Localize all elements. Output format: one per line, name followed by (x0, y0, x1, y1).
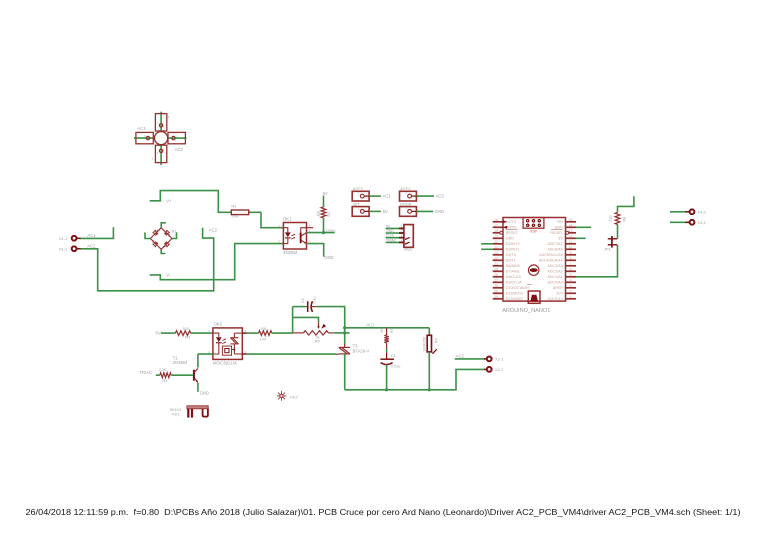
wire R2 to SYNC (323, 218, 325, 233)
SV1 pin 4 wire (386, 241, 404, 243)
OK1 light arrows (291, 234, 295, 236)
svg-text:ZC/S: ZC/S (386, 234, 394, 238)
svg-text:28: 28 (494, 284, 498, 288)
svg-text:SYNC: SYNC (325, 229, 336, 233)
svg-text:TRIAC: TRIAC (386, 238, 397, 242)
svg-text:5V: 5V (558, 237, 563, 241)
capacitor C1 (386, 352, 388, 359)
wire nano D3/INT1 (481, 248, 493, 250)
svg-text:17: 17 (494, 223, 498, 227)
svg-text:5V: 5V (323, 191, 328, 196)
svg-text:12: 12 (569, 234, 573, 238)
svg-text:OK2: OK2 (214, 322, 223, 327)
connector X2-1 (484, 358, 487, 360)
svg-text:3V3: 3V3 (556, 292, 563, 296)
svg-text:20: 20 (494, 240, 498, 244)
wire TRIAC to R4 (156, 374, 160, 376)
svg-text:ACF2: ACF2 (400, 186, 411, 191)
wire OK2 pin6 to R6 (246, 332, 258, 334)
wire to C2 (293, 306, 306, 308)
pin 18 stub (493, 232, 503, 234)
svg-text:5V: 5V (156, 330, 161, 335)
svg-text:23: 23 (494, 256, 498, 260)
pin 16 stub (493, 221, 503, 223)
svg-text:GND: GND (506, 237, 515, 241)
pin 21 stub (493, 248, 503, 250)
T3 gate (336, 353, 339, 356)
wire net AC1 (80, 227, 114, 238)
svg-text:19: 19 (494, 234, 498, 238)
svg-text:ACF1: ACF1 (353, 186, 364, 191)
wire B1 left stub (145, 232, 150, 238)
svg-text:22: 22 (494, 251, 498, 255)
svg-text:25T: 25T (353, 202, 360, 207)
wire JP1 to R8 (617, 224, 619, 238)
wire 5V to R2 (323, 196, 325, 207)
svg-text:15: 15 (569, 218, 573, 222)
svg-text:1: 1 (570, 295, 572, 299)
diode D-topright (164, 230, 171, 237)
svg-text:5.6K: 5.6K (231, 215, 239, 219)
svg-text:6: 6 (570, 267, 572, 271)
wire AC1 to varistor (428, 328, 430, 336)
svg-text:SV1: SV1 (404, 247, 412, 252)
svg-text:MOC3021M: MOC3021M (213, 361, 237, 366)
diode D-botright (163, 242, 170, 249)
svg-text:16: 16 (494, 218, 498, 222)
svg-text:24: 24 (494, 262, 498, 266)
connector X3-2 (670, 211, 686, 213)
svg-text:ADC0/A0: ADC0/A0 (547, 281, 562, 285)
wire R7 to C1 (386, 343, 388, 349)
pin 15 stub (566, 221, 577, 223)
pin 10 stub (566, 248, 577, 250)
wire OK2 pin2 to T1 (208, 353, 213, 355)
svg-text:11: 11 (569, 240, 573, 244)
connector ACF1 (352, 191, 369, 201)
svg-text:D3/INT1: D3/INT1 (506, 248, 520, 252)
svg-text:AC3: AC3 (436, 194, 445, 199)
resistor R4 (160, 373, 171, 378)
varistor R9 S10K250 (427, 335, 431, 352)
svg-text:AC2: AC2 (209, 227, 218, 232)
OK2 zero-cross box (222, 346, 231, 355)
svg-text:3: 3 (401, 234, 403, 238)
svg-text:KK1: KK1 (172, 412, 179, 416)
connector SV1 (404, 225, 413, 248)
wire 5V to R3 (161, 332, 176, 334)
svg-text:13: 13 (569, 229, 573, 233)
svg-text:D10/OC1B/SS: D10/OC1B/SS (506, 286, 530, 290)
pin 14 stub (566, 226, 577, 228)
svg-text:26: 26 (494, 273, 498, 277)
wire R6 to node (272, 332, 293, 334)
wire R3 to OK2 pin1 (191, 332, 213, 334)
svg-text:D6/AIN0: D6/AIN0 (506, 264, 520, 268)
pin 13 stub (566, 232, 577, 234)
pad bottom (155, 145, 166, 162)
svg-text:R9: R9 (434, 339, 438, 343)
pad left (136, 132, 153, 143)
OK1 LED (283, 228, 290, 244)
svg-text:D5/T1: D5/T1 (506, 259, 516, 263)
svg-text:V+: V+ (166, 198, 172, 203)
wire C2 to junction (317, 307, 345, 344)
svg-text:GND: GND (324, 255, 333, 260)
pin 24 stub (493, 265, 503, 267)
wire net AC2 to X2-1 (455, 358, 485, 360)
wire wiper (293, 317, 319, 322)
svg-text:ADC4/SDA/A4: ADC4/SDA/A4 (539, 259, 563, 263)
resistor R1 (249, 211, 261, 213)
svg-text:AC1: AC1 (87, 233, 96, 238)
connector X2-2 (484, 368, 487, 370)
svg-text:AREF: AREF (553, 286, 564, 290)
wire R5 to junction (334, 332, 350, 334)
svg-text:2: 2 (570, 289, 572, 293)
svg-text:R5: R5 (315, 340, 320, 344)
svg-text:X3-2: X3-2 (697, 210, 706, 215)
svg-text:2.2K: 2.2K (159, 368, 167, 372)
connector 2ST (352, 207, 369, 217)
junction dots bottom (385, 388, 388, 391)
svg-text:ADC5/SCL/A5: ADC5/SCL/A5 (539, 253, 563, 257)
svg-text:SK104: SK104 (170, 408, 181, 412)
wire R8 up stub (618, 196, 634, 212)
svg-text:7: 7 (570, 262, 572, 266)
pin 22 stub (493, 254, 503, 256)
pin 11 stub (566, 243, 577, 245)
svg-text:2N3904: 2N3904 (173, 360, 188, 365)
pin 7 stub (566, 265, 577, 267)
svg-text:D7/AIN1: D7/AIN1 (506, 270, 520, 274)
svg-text:27: 27 (494, 278, 498, 282)
pin 12 stub (566, 237, 577, 239)
svg-text:D8/CLK0: D8/CLK0 (506, 275, 521, 279)
svg-text:GND: GND (435, 209, 444, 214)
wire (160, 112, 162, 132)
SV1 clock marks (405, 237, 410, 239)
arduino logo (529, 265, 539, 275)
junction dots (343, 326, 346, 329)
wire nano D2/INT0 (481, 243, 493, 245)
junction (322, 231, 325, 234)
wire OK2 pin4 to gate (247, 353, 337, 355)
resistor R2 (321, 207, 326, 218)
pin 5 stub (566, 276, 577, 278)
svg-text:25: 25 (494, 267, 498, 271)
svg-text:AC2: AC2 (87, 244, 96, 249)
svg-text:X2-1: X2-1 (495, 357, 504, 362)
pin 26 stub (493, 276, 503, 278)
svg-text:D9/OC1A: D9/OC1A (506, 281, 522, 285)
svg-text:R6: R6 (261, 327, 266, 331)
resistor R3 (175, 331, 190, 336)
svg-text:AC2: AC2 (456, 354, 465, 359)
svg-text:TRIAC: TRIAC (140, 370, 153, 375)
wire bottom run (345, 369, 485, 389)
OK1 phototransistor (300, 233, 302, 244)
svg-text:ADC1/A1: ADC1/A1 (547, 275, 562, 279)
svg-text:AC1: AC1 (383, 194, 392, 199)
svg-text:39: 39 (380, 329, 384, 333)
pin 28 stub (493, 287, 503, 289)
diode D-botleft (151, 240, 158, 247)
wire B1 bottom stub (161, 249, 165, 253)
connector X3-1 (670, 221, 686, 223)
svg-text:ADC7/A7: ADC7/A7 (547, 242, 562, 246)
svg-text:14: 14 (569, 223, 573, 227)
svg-text:ADC3/A3: ADC3/A3 (547, 264, 562, 268)
pin 30 stub (493, 298, 503, 300)
wire R4 to base (171, 374, 193, 376)
diode D-topleft (153, 229, 160, 236)
svg-text:30: 30 (494, 295, 498, 299)
transistor T1 2N3904 (193, 370, 195, 381)
svg-text:220: 220 (609, 216, 613, 222)
svg-text:X3-1: X3-1 (697, 220, 706, 225)
svg-text:JP1: JP1 (604, 247, 612, 252)
pin 25 stub (493, 270, 503, 272)
svg-text:KK2: KK2 (290, 394, 298, 399)
svg-text:D4/T0: D4/T0 (506, 253, 516, 257)
svg-text:AC1: AC1 (138, 126, 147, 131)
svg-text:0.01u: 0.01u (391, 365, 401, 369)
pin 17 stub (493, 226, 503, 228)
svg-text:X2-2: X2-2 (495, 367, 504, 372)
svg-text:3: 3 (570, 284, 572, 288)
svg-text:S10K250: S10K250 (422, 337, 426, 352)
svg-text:R4: R4 (162, 379, 167, 383)
svg-text:8: 8 (570, 256, 572, 260)
svg-text:C2: C2 (301, 298, 305, 303)
node center pad (155, 132, 168, 145)
SV1 pin 2 wire (386, 232, 404, 234)
wire (134, 137, 155, 139)
svg-text:R2: R2 (327, 212, 331, 217)
pin 3 stub (566, 287, 577, 289)
RESET bubbles (500, 231, 503, 234)
pin 1 stub (566, 298, 577, 300)
wire net V- (150, 244, 284, 280)
resistor R8 (615, 212, 620, 224)
svg-text:10: 10 (569, 245, 573, 249)
resistor R7 (384, 335, 388, 343)
svg-text:4: 4 (401, 238, 403, 242)
connector ACF2 (400, 191, 417, 201)
svg-text:SCK/D13: SCK/D13 (547, 297, 562, 301)
OK2 LED (213, 333, 222, 354)
svg-text:R8: R8 (622, 217, 626, 222)
svg-text:BTA26-V: BTA26-V (353, 348, 370, 353)
optocoupler OK2 (213, 328, 242, 360)
svg-text:GNDR: GNDR (400, 202, 412, 207)
pin 20 stub (493, 243, 503, 245)
svg-text:R1: R1 (231, 204, 237, 209)
svg-text:1: 1 (401, 224, 403, 228)
pin 29 stub (493, 292, 503, 294)
svg-text:100: 100 (260, 338, 266, 342)
svg-text:ARDUINO_NANO1: ARDUINO_NANO1 (502, 308, 550, 314)
wire net SYNC (307, 232, 335, 234)
pin 19 stub (493, 237, 503, 239)
heatsink KK1 SK104 (187, 406, 208, 409)
pin 27 stub (493, 281, 503, 283)
svg-text:X1-1: X1-1 (59, 236, 68, 241)
pad top (155, 114, 166, 131)
wire (160, 145, 162, 166)
svg-text:GND: GND (386, 229, 394, 233)
svg-text:OK1: OK1 (283, 216, 292, 221)
svg-text:ICSP: ICSP (530, 229, 537, 233)
RESET overlines (506, 228, 518, 230)
svg-text:9: 9 (570, 251, 572, 255)
resistor R6 (259, 331, 272, 336)
svg-text:R7: R7 (390, 329, 394, 333)
wire nano GND (576, 226, 591, 228)
svg-text:4: 4 (570, 278, 572, 282)
svg-text:GND: GND (200, 390, 209, 395)
SV1 pin 1 wire (386, 227, 404, 229)
svg-text:2: 2 (401, 229, 403, 233)
svg-text:D1/TX: D1/TX (506, 220, 517, 224)
wire nano 5V (576, 237, 586, 239)
wire OK1 pin4 to GND (307, 244, 324, 257)
svg-text:5V: 5V (383, 209, 388, 214)
wire nano A1 to JP1 (576, 245, 618, 277)
svg-text:0.1u: 0.1u (313, 297, 317, 304)
pin 8 stub (566, 259, 577, 261)
svg-text:510: 510 (183, 327, 189, 331)
OK2 light arrows (222, 339, 226, 341)
wire R1 to OK1 pin1 (261, 212, 283, 227)
usb connector icon (528, 291, 540, 303)
pin 4 stub (566, 281, 577, 283)
pad right (168, 132, 185, 143)
OK2 triac (230, 333, 242, 354)
pin 23 stub (493, 259, 503, 261)
svg-text:18: 18 (494, 229, 498, 233)
triac T3 (344, 344, 346, 348)
svg-text:X1-2: X1-2 (59, 247, 68, 252)
svg-text:2k: 2k (316, 335, 320, 339)
T1 emitter to GND (197, 382, 199, 391)
svg-text:VIN: VIN (557, 220, 563, 224)
optocoupler OK1 4N25M (283, 223, 306, 250)
connector GNDR (400, 207, 417, 217)
svg-text:4N25M: 4N25M (283, 250, 297, 255)
svg-text:D11/MOSI: D11/MOSI (506, 292, 523, 296)
svg-text:26/04/2018 12:11:59 p.m. f=0.: 26/04/2018 12:11:59 p.m. f=0.80 D:\PCBs … (26, 508, 741, 517)
svg-text:10k: 10k (317, 211, 321, 217)
ICSP header (523, 218, 544, 229)
pin 2 stub (566, 292, 577, 294)
wire net V+ (150, 191, 231, 213)
SV1 pin 3 wire (386, 237, 404, 239)
TX/RX arrows (503, 220, 508, 223)
pin 9 stub (566, 254, 577, 256)
svg-text:D2/INT0: D2/INT0 (506, 242, 520, 246)
jumper JP1 (608, 244, 617, 246)
capacitor C2 (305, 306, 307, 308)
svg-text:21: 21 (494, 245, 498, 249)
bridge rectifier B1 (150, 228, 172, 250)
svg-text:5: 5 (570, 273, 572, 277)
svg-text:RESET: RESET (506, 231, 519, 235)
svg-text:AC1: AC1 (366, 322, 375, 327)
svg-text:5V: 5V (386, 224, 391, 228)
svg-text:D12/MISO: D12/MISO (506, 297, 523, 301)
wire B1 right stub (172, 232, 177, 238)
svg-text:B1: B1 (172, 229, 178, 234)
wire (168, 137, 187, 139)
wire B1 top stub (161, 223, 166, 228)
pin 6 stub (566, 270, 577, 272)
trimmer R5 (318, 322, 320, 326)
svg-text:ADC6/A6: ADC6/A6 (547, 248, 562, 252)
svg-text:ADC2/A2: ADC2/A2 (547, 270, 562, 274)
wire net AC1 (345, 327, 430, 329)
svg-text:C1: C1 (391, 354, 396, 358)
wire varistor down (428, 352, 430, 390)
svg-text:AC2: AC2 (175, 147, 184, 152)
wire node vertical (292, 307, 294, 334)
svg-text:R3: R3 (185, 336, 190, 340)
svg-text:RESET: RESET (550, 231, 563, 235)
wire AC1 to R7 (386, 328, 388, 335)
svg-text:29: 29 (494, 289, 498, 293)
svg-text:V-: V- (166, 272, 171, 277)
led KK2 (277, 391, 287, 401)
wire net AC2 (80, 228, 214, 291)
